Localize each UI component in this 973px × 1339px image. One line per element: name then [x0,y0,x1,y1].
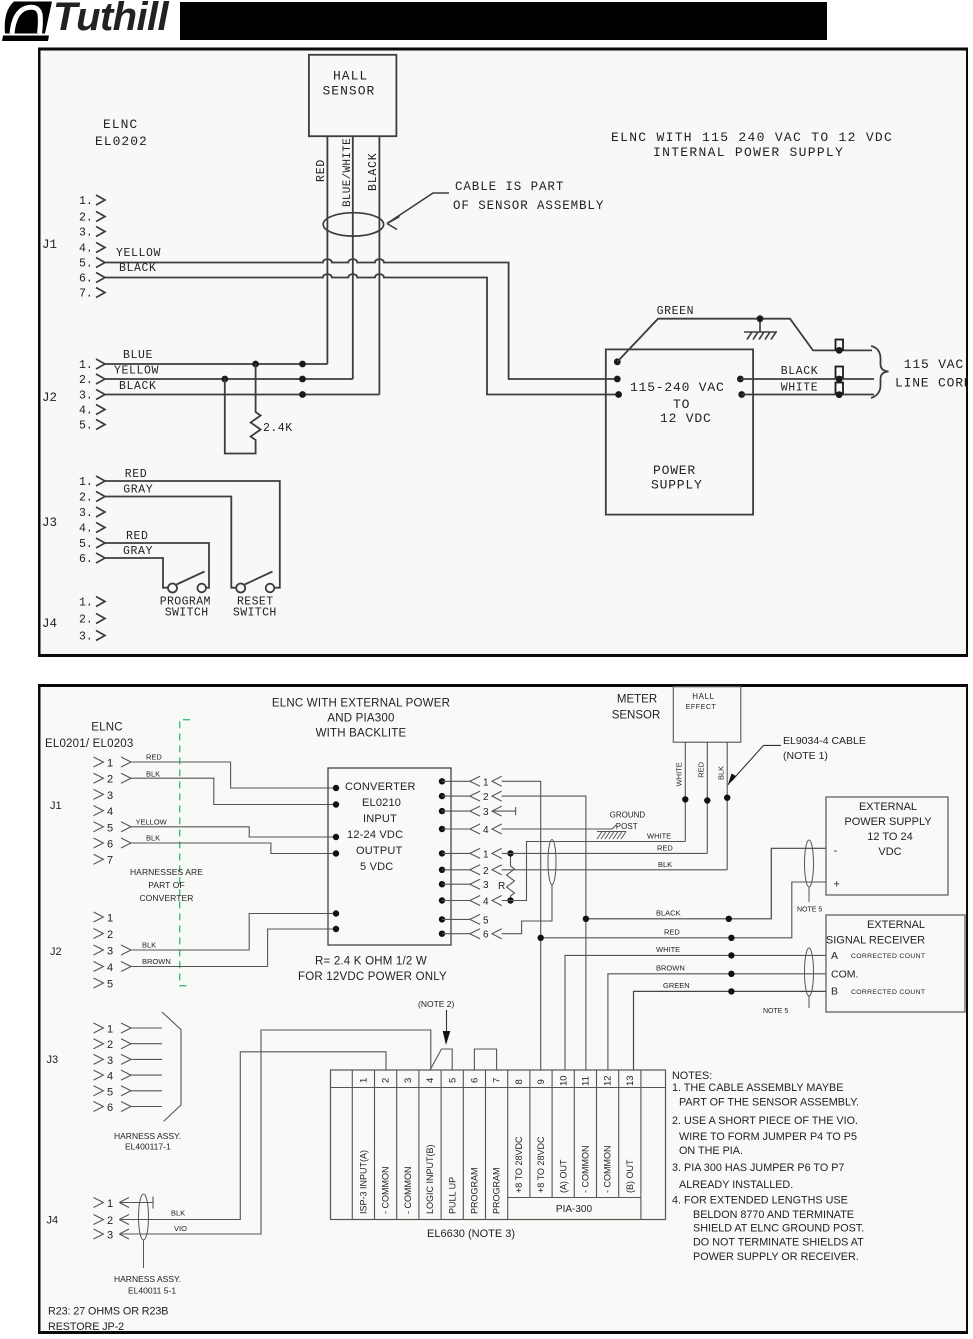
svg-text:GRAY: GRAY [123,484,153,497]
svg-text:3: 3 [483,807,489,818]
svg-text:1: 1 [107,913,113,925]
junction dot green/ground [757,315,764,322]
svg-text:4: 4 [107,806,113,818]
panel 2 border frame [39,686,968,1333]
svg-text:6: 6 [483,930,489,941]
svg-text:5: 5 [483,915,489,926]
svg-text:1: 1 [107,758,113,770]
svg-text:6.: 6. [79,553,93,566]
svg-text:CORRECTED COUNT: CORRECTED COUNT [851,953,925,960]
label HARNESS ASSY. EL40011 5-1 [114,1274,181,1296]
connector J2 [79,359,93,433]
svg-text:B: B [831,986,838,998]
svg-text:NOTE 5: NOTE 5 [763,1008,788,1015]
svg-text:CORRECTED COUNT: CORRECTED COUNT [851,989,925,996]
wire J1.2 blk to converter [131,778,336,804]
svg-text:YELLOW: YELLOW [116,247,161,260]
title ELNC WITH EXTERNAL POWER AND PIA300 WITH BACKLITE [272,698,450,740]
wire J1.5 yellow to power supply (with hops) [105,259,617,379]
svg-text:EL9034-4 CABLE: EL9034-4 CABLE [783,735,866,747]
svg-text:4.: 4. [79,523,93,536]
svg-text:BROWN: BROWN [656,963,685,972]
svg-text:WITH BACKLITE: WITH BACKLITE [316,728,407,740]
wire J1.6 blk to converter [131,843,336,854]
svg-text:BLACK: BLACK [367,152,380,191]
svg-text:12 TO 24: 12 TO 24 [867,831,912,843]
wire hall BLACK vertical [378,136,380,394]
converter output pin chevrons (bottom group 1-6) [470,848,502,938]
ground post hatch [597,832,626,840]
hall wire dots [682,795,730,804]
svg-text:1: 1 [107,1198,113,1210]
svg-text:10: 10 [558,1075,569,1086]
svg-text:LINE CORD: LINE CORD [895,376,968,391]
jumper P4-P5 [430,1049,452,1070]
svg-text:115-240 VAC: 115-240 VAC [630,380,725,395]
svg-text:EXTERNAL: EXTERNAL [859,801,917,813]
svg-text:12-24 VDC: 12-24 VDC [347,829,403,841]
svg-text:INTERNAL POWER SUPPLY: INTERNAL POWER SUPPLY [653,145,844,160]
Tuthill logo [0,0,180,55]
svg-text:+: + [834,879,840,891]
svg-text:4. FOR EXTENDED LENGTHS USE: 4. FOR EXTENDED LENGTHS USE [672,1195,848,1207]
svg-text:11: 11 [581,1076,592,1086]
J3 harness bundle bracket [162,1012,181,1121]
svg-text:SUPPLY: SUPPLY [651,478,703,493]
svg-text:12 VDC: 12 VDC [660,411,712,426]
svg-text:PROGRAM: PROGRAM [470,1167,480,1214]
converter left terminal dots [333,785,339,932]
wire BLACK to power supply minus [586,848,826,919]
svg-text:POST: POST [616,822,638,831]
svg-text:SWITCH: SWITCH [165,607,209,620]
svg-text:POWER: POWER [653,463,696,478]
svg-text:2.4K: 2.4K [263,422,293,435]
svg-text:J3: J3 [47,1054,59,1066]
svg-text:BROWN: BROWN [142,957,171,966]
svg-text:2. USE A SHORT PIECE OF THE VI: 2. USE A SHORT PIECE OF THE VIO. [672,1115,858,1127]
svg-text:TO: TO [673,397,690,412]
svg-text:4.: 4. [79,243,93,256]
svg-text:3: 3 [107,946,113,958]
svg-text:HALL: HALL [692,692,714,701]
svg-text:HARNESS ASSY.: HARNESS ASSY. [114,1131,181,1141]
svg-text:2.: 2. [79,212,93,225]
svg-text:SENSOR: SENSOR [323,84,376,99]
PANEL 1 : ELNC EL0202 internal power supply diagram [38,47,968,662]
svg-text:3: 3 [107,790,113,802]
svg-text:J2: J2 [42,391,57,405]
svg-text:2: 2 [483,866,489,877]
line cord brace [871,346,889,398]
svg-text:4: 4 [107,962,113,974]
svg-text:3: 3 [107,1055,113,1067]
cable ellipse [323,213,383,236]
wire J2.4 brown to converter [131,929,336,967]
label METER SENSOR [612,694,661,722]
wire hall BLUE/WHITE vertical [352,136,354,379]
hall effect box [673,687,741,743]
PIA-300 number row line [331,1087,666,1089]
converter right terminal dots [439,778,445,937]
svg-text:ALREADY INSTALLED.: ALREADY INSTALLED. [679,1179,793,1191]
jumper P6-P7 [474,1049,496,1070]
svg-text:EL0201/ EL0203: EL0201/ EL0203 [45,738,134,750]
wire hall RED vertical [326,136,328,364]
label HARNESSES ARE PART OF CONVERTER [130,867,203,903]
svg-text:4.: 4. [79,405,93,418]
svg-text:RED: RED [697,761,706,777]
wire white net (pin4 to hall white) [502,842,686,901]
svg-text:9: 9 [536,1079,547,1084]
svg-text:INPUT: INPUT [363,813,397,825]
svg-text:5 VDC: 5 VDC [360,861,393,873]
svg-text:1: 1 [483,777,489,788]
svg-text:4: 4 [483,897,489,908]
shield ellipse receiver cable [805,948,814,996]
PIA-300 terminal labels (rotated) [359,1136,635,1214]
wire blk net (pin2 to hall blk) [502,869,728,871]
svg-text:J2: J2 [50,946,62,958]
svg-text:3: 3 [483,880,489,891]
svg-text:3: 3 [403,1078,414,1083]
wire J2.3 blk to converter [131,914,336,951]
svg-text:J3: J3 [42,516,57,530]
wire pin6 to shield drain [502,885,552,934]
hall wire labels (rotated) [675,761,726,786]
svg-text:Tuthill: Tuthill [53,0,170,39]
svg-text:(A) OUT: (A) OUT [558,1159,568,1193]
junction dots red [538,935,544,941]
label GROUND POST [610,811,646,832]
shield ellipse J4 [139,1194,149,1240]
hall wire RED vertical [706,742,708,853]
wire top pin4 to ground post [502,825,616,829]
shield ellipse hall cable [548,840,556,885]
svg-text:RED: RED [125,468,148,481]
wire top pin1 to PIA col9 [502,781,541,1070]
svg-text:- COMMON: - COMMON [403,1167,413,1215]
svg-text:SHIELD AT ELNC GROUND POST.: SHIELD AT ELNC GROUND POST. [693,1223,864,1235]
title ELNC WITH 115 240 VAC TO 12 VDC [611,130,893,160]
svg-text:115 VAC: 115 VAC [904,357,964,372]
svg-text:WHITE: WHITE [675,762,684,786]
svg-text:+8 TO 28VDC: +8 TO 28VDC [536,1136,546,1193]
svg-text:7: 7 [492,1078,503,1083]
svg-text:13: 13 [625,1075,636,1086]
power supply box [606,349,753,514]
resistor 2.4K [225,364,261,454]
PIA-300 terminal strip outer box [331,1070,666,1220]
connector J4 [79,597,93,644]
converter output pin chevrons (top group 1-4) [470,776,516,834]
svg-text:RED: RED [664,927,680,936]
svg-text:EL0202: EL0202 [95,134,148,149]
svg-text:AND PIA300: AND PIA300 [327,713,394,725]
svg-text:SWITCH: SWITCH [233,607,277,620]
svg-text:VDC: VDC [878,846,901,858]
svg-text:WHITE: WHITE [781,382,819,395]
svg-text:FOR 12VDC POWER ONLY: FOR 12VDC POWER ONLY [298,971,447,983]
svg-text:RED: RED [126,530,149,543]
wire J3.1 red to reset switch right [105,481,280,588]
svg-text:(B) OUT: (B) OUT [625,1159,635,1193]
svg-text:2.: 2. [79,374,93,387]
svg-text:2.: 2. [79,614,93,627]
svg-text:GRAY: GRAY [123,545,153,558]
svg-text:-: - [834,845,838,857]
svg-text:- COMMON: - COMMON [581,1146,591,1194]
svg-text:VIO: VIO [174,1224,187,1233]
label R= 2.4 K OHM 1/2 W FOR 12VDC POWER ONLY [298,956,447,984]
label CABLE IS PART OF SENSOR ASSEMBLY [453,180,604,213]
svg-text:WHITE: WHITE [647,832,671,841]
wire WHITE to receiver A [565,955,826,1070]
wire top pin2 to PIA col11 [502,796,586,1070]
svg-text:4: 4 [107,1071,113,1083]
svg-text:EL40011 5-1: EL40011 5-1 [128,1286,176,1296]
wire BROWN to receiver COM [608,974,826,1070]
svg-text:ON THE PIA.: ON THE PIA. [679,1145,743,1157]
svg-text:3.: 3. [79,507,93,520]
wire J4.2 BLK to PIA col2 [119,1052,386,1225]
svg-text:ISP-3 INPUT(A): ISP-3 INPUT(A) [359,1150,369,1214]
wire J2.1 blue [105,363,327,365]
svg-text:R= 2.4 K OHM 1/2 W: R= 2.4 K OHM 1/2 W [315,956,427,968]
connector J3 [79,476,93,566]
svg-text:BLK: BLK [142,941,156,950]
svg-text:1.: 1. [79,597,93,610]
svg-text:GREEN: GREEN [663,981,690,990]
connector J1 [79,195,93,301]
external signal receiver box [826,915,965,1012]
svg-text:5.: 5. [79,420,93,433]
svg-text:EL6630 (NOTE 3): EL6630 (NOTE 3) [427,1228,515,1240]
svg-text:GREEN: GREEN [657,305,695,318]
wire black to line cord [740,378,874,380]
svg-text:EL400117-1: EL400117-1 [125,1142,171,1152]
svg-text:RED: RED [315,159,328,182]
svg-text:BLK: BLK [717,766,726,780]
svg-text:SENSOR: SENSOR [612,710,661,722]
svg-text:6: 6 [470,1078,481,1083]
svg-text:HARNESS ASSY.: HARNESS ASSY. [114,1274,181,1284]
panel 1 border frame [39,49,968,656]
wire GREEN to receiver B [634,991,827,1070]
svg-text:BLUE/WHITE: BLUE/WHITE [342,138,354,207]
svg-text:CONVERTER: CONVERTER [345,781,416,793]
svg-text:2.: 2. [79,492,93,505]
svg-text:PIA-300: PIA-300 [556,1204,593,1215]
svg-text:BLK: BLK [171,1209,185,1218]
converter EL0210 box [328,768,451,945]
wire J3.2 gray to reset switch left [105,497,236,588]
PIA-300 merged cell line [508,1197,641,1199]
svg-text:8: 8 [514,1079,525,1084]
svg-text:HARNESSES ARE: HARNESSES ARE [130,867,203,877]
svg-text:+8 TO 28VDC: +8 TO 28VDC [514,1136,524,1193]
ground symbol [744,319,777,340]
svg-text:EFFECT: EFFECT [686,704,717,711]
wire green with ground [617,319,872,362]
svg-text:(NOTE 1): (NOTE 1) [783,750,828,762]
svg-text:OUTPUT: OUTPUT [356,845,403,857]
svg-text:3. PIA 300 HAS JUMPER P6 TO P7: 3. PIA 300 HAS JUMPER P6 TO P7 [672,1162,844,1174]
shield drain J4 [143,1240,145,1268]
svg-text:4: 4 [425,1078,436,1083]
svg-text:2: 2 [107,1039,113,1051]
leader arrow to cable [387,193,449,230]
svg-text:YELLOW: YELLOW [114,365,159,378]
hall wire WHITE vertical [684,742,686,841]
svg-text:5: 5 [107,1086,113,1098]
svg-text:BLACK: BLACK [119,380,157,393]
svg-text:NOTE 5: NOTE 5 [797,907,822,914]
svg-text:1: 1 [483,849,489,860]
svg-text:ELNC WITH 115 240 VAC TO 12 VD: ELNC WITH 115 240 VAC TO 12 VDC [611,130,893,145]
reset switch [236,572,274,593]
svg-text:7: 7 [107,855,113,867]
logo icon [2,2,52,42]
svg-text:5: 5 [107,822,113,834]
svg-text:RESTORE JP-2: RESTORE JP-2 [48,1321,124,1333]
svg-text:R23: 27 OHMS OR R23B: R23: 27 OHMS OR R23B [48,1306,168,1318]
svg-text:6: 6 [107,1102,113,1114]
svg-text:LOGIC INPUT(B): LOGIC INPUT(B) [425,1144,435,1214]
label PROGRAM SWITCH [160,596,211,620]
svg-text:PROGRAM: PROGRAM [492,1167,502,1214]
PIA-300 column separators [352,1070,641,1220]
svg-text:2: 2 [107,1215,113,1227]
title ELNC EL0202 [95,117,148,149]
svg-text:R: R [498,881,505,892]
svg-text:6: 6 [107,839,113,851]
dashed harness boundary line [180,720,190,986]
svg-text:POWER SUPPLY: POWER SUPPLY [844,816,932,828]
wire J1.5 yellow to converter [131,827,336,837]
J3 pin wires [131,1028,162,1107]
shield ellipse power cable [805,840,814,887]
svg-text:BLK: BLK [658,860,672,869]
svg-text:POWER SUPPLY OR RECEIVER.: POWER SUPPLY OR RECEIVER. [693,1251,859,1263]
svg-text:1.: 1. [79,359,93,372]
svg-text:12: 12 [603,1075,614,1086]
svg-text:- COMMON: - COMMON [381,1167,391,1215]
PIA-300 terminal numbers (rotated) [359,1075,636,1086]
svg-text:ELNC: ELNC [91,722,122,734]
title ELNC EL0201/EL0203 [45,722,134,751]
label RESET SWITCH [233,596,277,620]
svg-text:ELNC WITH EXTERNAL POWER: ELNC WITH EXTERNAL POWER [272,698,450,710]
line cord terminal white [836,383,844,399]
svg-text:A: A [831,950,838,962]
svg-text:5: 5 [447,1078,458,1083]
svg-text:3: 3 [107,1230,113,1242]
svg-text:BLK: BLK [146,770,160,779]
svg-text:WHITE: WHITE [656,945,680,954]
shield drain power [808,887,810,902]
converter right pin stubs [442,781,470,933]
svg-text:5.: 5. [79,258,93,271]
line cord terminal black [836,367,844,383]
power supply terminal dots [614,358,745,398]
svg-text:COM.: COM. [831,969,858,981]
svg-text:BLACK: BLACK [781,365,819,378]
header black bar [180,2,827,40]
svg-text:BLACK: BLACK [656,908,681,917]
svg-text:6.: 6. [79,273,93,286]
wire red net (pin1 to hall red) [502,852,708,854]
program switch [168,572,206,593]
svg-text:2: 2 [483,792,489,803]
svg-text:1. THE CABLE ASSEMBLY MAYBE: 1. THE CABLE ASSEMBLY MAYBE [672,1082,843,1094]
svg-text:1.: 1. [79,476,93,489]
leader EL9034-4 CABLE [783,735,866,762]
svg-text:2: 2 [381,1078,392,1083]
svg-text:METER: METER [617,694,657,706]
svg-text:4: 4 [483,825,489,836]
svg-text:WIRE TO FORM JUMPER P4 TO P5: WIRE TO FORM JUMPER P4 TO P5 [679,1131,857,1143]
svg-text:2: 2 [107,929,113,941]
hall sensor box [309,55,397,136]
svg-text:- COMMON: - COMMON [603,1146,613,1194]
svg-text:3.: 3. [79,390,93,403]
svg-text:NOTES:: NOTES: [672,1070,712,1082]
resistor R between pins 1 and 4 [507,853,515,900]
wire J2.3 black [105,394,379,396]
wire J3.5 red to program switch right [105,543,209,588]
svg-text:BELDON 8770 AND TERMINATE: BELDON 8770 AND TERMINATE [693,1209,854,1221]
hall wire BLK vertical [726,742,728,870]
wire J2.2 yellow [105,378,353,380]
svg-text:RED: RED [146,753,162,762]
svg-text:SIGNAL RECEIVER: SIGNAL RECEIVER [826,935,925,947]
svg-text:DO NOT TERMINATE SHIELDS AT: DO NOT TERMINATE SHIELDS AT [693,1237,864,1249]
notes block [672,1070,864,1263]
svg-text:PART OF: PART OF [148,880,185,890]
svg-text:PART OF THE SENSOR ASSEMBLY.: PART OF THE SENSOR ASSEMBLY. [679,1097,859,1109]
svg-text:PULL UP: PULL UP [447,1177,457,1214]
svg-text:5.: 5. [79,538,93,551]
shield drain receiver [808,996,810,1008]
external power supply box [826,797,948,895]
svg-text:1.: 1. [79,195,93,208]
svg-text:ELNC: ELNC [103,117,138,132]
svg-text:GROUND: GROUND [610,811,646,820]
svg-text:3.: 3. [79,227,93,240]
svg-text:YELLOW: YELLOW [136,818,168,827]
wire J1.6 black to power supply (with hops) [105,274,619,394]
svg-text:7.: 7. [79,288,93,301]
J4 pin1 terminated stub [119,1197,153,1209]
svg-text:1: 1 [107,1024,113,1036]
PANEL 2 : ELNC external power + PIA300 diagram [38,684,968,1339]
svg-text:J1: J1 [50,800,62,812]
wire J1.1 red to converter [131,762,336,788]
wire J4.3 VIO to PIA col4 [119,1030,431,1239]
wire J3.6 gray to program switch left [105,558,168,588]
svg-text:OF SENSOR ASSEMBLY: OF SENSOR ASSEMBLY [453,199,604,213]
wire white to line cord [742,394,874,396]
junction dots J2 [221,361,305,398]
svg-text:5: 5 [107,979,113,991]
svg-text:CABLE IS PART: CABLE IS PART [455,180,564,194]
wire RED to power supply plus [541,882,826,938]
svg-text:BLACK: BLACK [119,262,157,275]
svg-text:BLUE: BLUE [123,349,153,362]
svg-text:EXTERNAL: EXTERNAL [867,919,925,931]
svg-text:J4: J4 [42,617,57,631]
